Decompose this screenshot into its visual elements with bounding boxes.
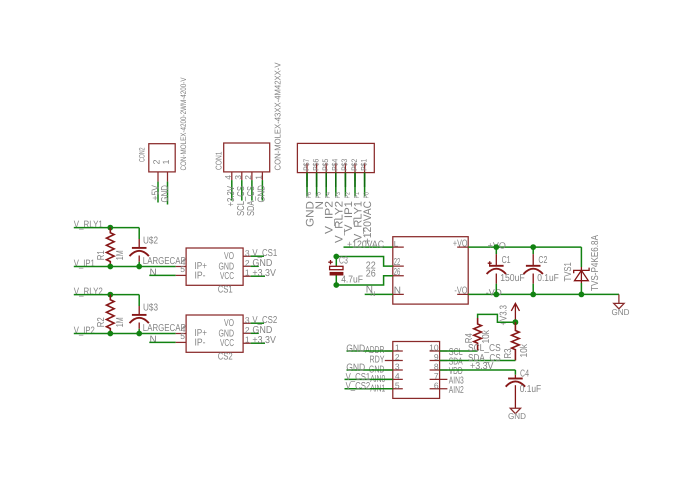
wire V_IP1	[74, 266, 176, 268]
svg-text:2: 2	[152, 159, 162, 164]
svg-text:26: 26	[366, 269, 376, 280]
wire +3.3V	[251, 275, 265, 277]
svg-text:GND: GND	[508, 411, 526, 421]
junction	[579, 292, 585, 298]
junction	[107, 264, 113, 270]
connector CON1	[214, 62, 283, 180]
supply +V3.3 arrow	[499, 303, 520, 325]
svg-text:VCC: VCC	[220, 271, 234, 282]
svg-text:TVS1: TVS1	[563, 262, 574, 282]
svg-text:+VO: +VO	[453, 238, 468, 249]
diode TVS1 TVS-P4KE6.8A	[563, 235, 601, 295]
capacitor C2 0.1uF	[524, 247, 559, 294]
wire V_IP2	[325, 173, 327, 197]
svg-text:TVS-P4KE6.8A: TVS-P4KE6.8A	[590, 235, 601, 291]
wire V_IP1	[344, 173, 346, 197]
svg-text:GND: GND	[612, 307, 630, 317]
wire SDA_CS	[440, 360, 516, 362]
junction	[493, 244, 499, 250]
svg-text:1M: 1M	[115, 317, 126, 327]
capacitor C4 0.1uF	[506, 369, 542, 409]
svg-text:CON1: CON1	[214, 151, 224, 170]
wire GND	[251, 332, 259, 334]
capacitor U$2 LARGECAP	[130, 236, 187, 267]
svg-text:N: N	[394, 286, 401, 297]
svg-text:V_RLY2: V_RLY2	[74, 287, 103, 298]
resistor R1 1M	[96, 228, 126, 267]
svg-text:U$2: U$2	[143, 236, 158, 247]
wire +5V	[157, 182, 159, 203]
svg-text:R1: R1	[96, 250, 107, 260]
junction	[333, 282, 339, 288]
svg-text:5: 5	[180, 264, 185, 274]
svg-text:1: 1	[395, 343, 400, 353]
wire N	[316, 173, 318, 197]
wire N	[365, 293, 393, 295]
svg-text:6: 6	[434, 381, 439, 391]
wire V_RLY1	[74, 228, 139, 239]
svg-text:CON2: CON2	[137, 147, 146, 162]
svg-text:9: 9	[434, 352, 439, 362]
svg-text:P6: P6	[306, 192, 313, 199]
capacitor C1 150uF	[487, 247, 525, 294]
svg-text:3: 3	[245, 248, 250, 258]
svg-text:P0: P0	[364, 192, 371, 199]
svg-text:C2: C2	[538, 255, 547, 266]
wire pin overlap shading	[307, 173, 365, 187]
svg-text:P$5: P$5	[321, 158, 330, 170]
pin P$2	[354, 164, 356, 182]
capacitor U$3 LARGECAP	[130, 303, 187, 334]
svg-text:GND: GND	[160, 185, 171, 203]
svg-text:P$1: P$1	[359, 158, 368, 170]
wire +120VAC	[364, 173, 366, 197]
svg-text:5: 5	[395, 381, 400, 391]
pin P$5	[325, 164, 327, 182]
svg-text:V_CS2: V_CS2	[346, 381, 371, 392]
wire SDA_CS	[251, 180, 253, 201]
svg-text:GND: GND	[346, 343, 365, 354]
pin P$4	[335, 164, 337, 182]
junction	[530, 292, 536, 298]
svg-text:26: 26	[394, 267, 401, 278]
svg-text:0.1uF: 0.1uF	[520, 384, 542, 395]
capacitor C3 4.7uF	[328, 255, 363, 285]
wire +VO rail	[468, 246, 581, 248]
svg-text:C3: C3	[339, 255, 348, 266]
wire GND	[261, 180, 263, 201]
svg-text:R3: R3	[503, 348, 514, 358]
wire V_CS2	[345, 388, 393, 390]
svg-text:1: 1	[161, 159, 171, 164]
svg-text:P$4: P$4	[331, 158, 340, 170]
svg-text:4.7uF: 4.7uF	[341, 275, 363, 286]
svg-text:N: N	[370, 291, 375, 298]
wire +3.3V	[231, 180, 233, 201]
svg-text:2: 2	[245, 325, 250, 335]
svg-text:P$3: P$3	[340, 158, 349, 170]
svg-text:V_IP1: V_IP1	[74, 259, 95, 270]
wire +3.3V VDD	[440, 370, 516, 375]
pin P$3	[344, 164, 346, 182]
svg-text:U$3: U$3	[143, 303, 158, 314]
svg-text:VO: VO	[224, 251, 234, 262]
svg-text:10k: 10k	[519, 343, 530, 357]
junction	[107, 292, 113, 298]
ground	[508, 408, 526, 421]
pin P$6	[316, 164, 318, 182]
svg-text:VCC: VCC	[220, 338, 234, 349]
svg-text:P1: P1	[354, 192, 361, 199]
junction	[513, 319, 519, 325]
junction	[530, 244, 536, 250]
resistor R3 10k	[503, 322, 530, 360]
pin P$1	[364, 164, 366, 182]
svg-text:V_IP2: V_IP2	[74, 326, 95, 337]
junction	[107, 331, 113, 337]
svg-text:4: 4	[223, 175, 233, 180]
svg-text:1: 1	[245, 268, 250, 278]
svg-text:1: 1	[245, 335, 250, 345]
junction	[493, 292, 499, 298]
wire V_CS1	[345, 378, 393, 380]
wire GND	[167, 182, 169, 205]
svg-text:2: 2	[243, 175, 253, 180]
svg-text:+120VAC: +120VAC	[347, 239, 384, 250]
wire +120VAC	[344, 246, 393, 248]
wire V_CS1	[251, 255, 264, 257]
svg-text:150uF: 150uF	[500, 273, 525, 284]
connector CON2	[137, 77, 188, 182]
svg-text:N: N	[150, 334, 157, 345]
svg-text:10: 10	[429, 343, 439, 353]
svg-text:2: 2	[245, 258, 250, 268]
junction	[107, 225, 113, 231]
wire pullup net	[478, 314, 516, 322]
junction	[136, 331, 142, 337]
svg-text:+3.3V: +3.3V	[252, 268, 276, 279]
svg-text:P$2: P$2	[350, 158, 359, 170]
svg-text:1: 1	[253, 175, 263, 180]
ground	[612, 303, 630, 317]
IC current sensor CS2	[186, 315, 251, 363]
svg-text:3: 3	[233, 175, 243, 180]
svg-text:IP-: IP-	[195, 338, 206, 349]
svg-text:P4: P4	[325, 192, 332, 199]
svg-text:10k: 10k	[481, 329, 492, 343]
svg-text:GND: GND	[256, 185, 267, 203]
wire net 26	[336, 276, 393, 285]
svg-text:R2: R2	[96, 317, 107, 327]
svg-text:SDA_CS: SDA_CS	[246, 186, 257, 216]
wire GND	[251, 265, 259, 267]
svg-text:+3.3V: +3.3V	[252, 335, 276, 346]
svg-text:CON-MOLEX-43XX-4M42XX-V: CON-MOLEX-43XX-4M42XX-V	[273, 62, 283, 170]
svg-text:-VO: -VO	[486, 288, 502, 298]
svg-text:-VO: -VO	[454, 286, 467, 297]
svg-text:0.1uF: 0.1uF	[537, 273, 559, 284]
svg-text:1M: 1M	[115, 250, 126, 260]
svg-text:R4: R4	[464, 333, 475, 343]
svg-text:P3: P3	[335, 192, 342, 199]
junction	[333, 254, 339, 260]
resistor R4 10k	[464, 318, 492, 351]
wire V_RLY1	[354, 173, 356, 197]
svg-text:5: 5	[180, 331, 185, 341]
wire V_RLY2	[74, 295, 139, 306]
junction	[136, 264, 142, 270]
svg-text:3: 3	[245, 315, 250, 325]
svg-text:P2: P2	[344, 192, 351, 199]
wire +3.3V	[251, 342, 265, 344]
svg-text:L: L	[394, 239, 399, 248]
wire GND	[306, 173, 308, 197]
svg-text:C1: C1	[502, 255, 511, 266]
svg-text:VO: VO	[224, 318, 234, 329]
wire GND pin1	[347, 350, 393, 352]
svg-text:C4: C4	[520, 369, 529, 380]
svg-text:N: N	[150, 267, 157, 278]
wire net 22	[336, 257, 393, 267]
wire -VO rail	[468, 293, 619, 295]
svg-text:P$7: P$7	[302, 158, 311, 170]
resistor R2 1M	[96, 295, 126, 334]
svg-text:CON-MOLEX-4200-2WM-4200-V: CON-MOLEX-4200-2WM-4200-V	[179, 77, 188, 171]
svg-text:+3.3V: +3.3V	[470, 361, 494, 372]
svg-text:+120VAC: +120VAC	[362, 201, 374, 244]
power module U$4	[393, 237, 468, 304]
svg-text:CS2: CS2	[218, 352, 233, 363]
svg-text:2: 2	[395, 352, 400, 362]
svg-text:CS1: CS1	[218, 285, 233, 296]
IC ADC (ADS1015)	[365, 342, 464, 399]
svg-text:P$6: P$6	[311, 158, 320, 170]
svg-text:AIN2: AIN2	[449, 385, 464, 396]
svg-text:P5: P5	[316, 192, 323, 199]
wire GND pin3	[347, 369, 393, 371]
wire V_CS2	[251, 322, 264, 324]
IC current sensor CS1	[186, 248, 251, 296]
svg-text:IP-: IP-	[195, 271, 206, 282]
connector U$1 7-pin header	[297, 143, 374, 172]
svg-text:V_RLY1: V_RLY1	[74, 220, 103, 231]
wire SCL_CS	[440, 350, 478, 352]
pin P$7	[306, 164, 308, 182]
wire SCL_CS	[241, 180, 243, 201]
wire V_IP2	[74, 333, 176, 335]
wire V_RLY2	[335, 173, 337, 197]
